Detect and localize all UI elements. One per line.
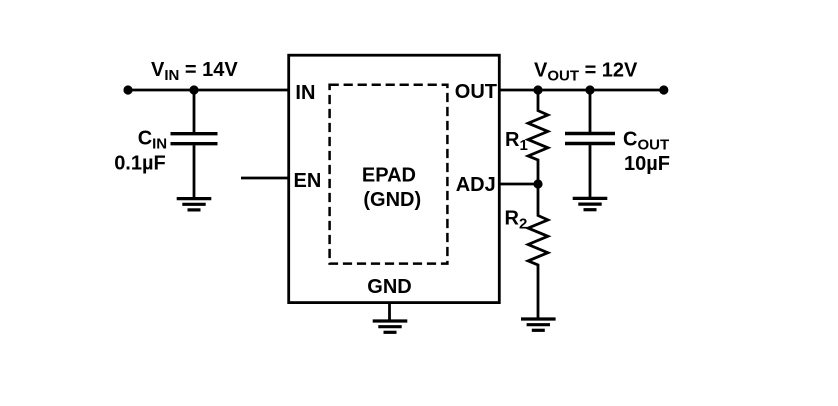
node output terminal [659,85,668,94]
wire CIN bottom lead [193,145,196,197]
svg-text:OUT: OUT [455,81,497,103]
op-amp U1 regulator box [289,55,500,302]
wire COUT top lead [589,90,592,132]
resistor R2 [528,184,548,318]
node COUT junction [585,85,594,94]
node R1 top junction [533,85,542,94]
EPAD dashed box [330,85,448,264]
wire ADJ lead [499,183,538,186]
svg-text:ADJ: ADJ [456,174,496,196]
wire EN lead [241,177,290,180]
node input terminal [123,85,132,94]
svg-text:10µF: 10µF [624,153,670,175]
ground COUT [573,198,608,209]
node VIN junction [189,85,198,94]
svg-text:EPAD: EPAD [362,164,416,186]
ground CIN [177,199,212,210]
svg-text:(GND): (GND) [363,189,421,211]
svg-text:VIN = 14V: VIN = 14V [151,59,238,84]
svg-text:GND: GND [367,276,411,298]
wire input rail [128,89,290,92]
wire CIN top lead [193,90,196,132]
wire GND stub [388,303,391,320]
ground U1 [373,321,408,332]
ground R2 [521,319,556,330]
resistor R1 [528,90,548,184]
svg-text:EN: EN [294,170,322,192]
node ADJ junction [533,179,542,188]
capacitor CIN [171,132,218,135]
capacitor COUT [565,132,615,135]
svg-text:IN: IN [295,82,315,104]
wire COUT bottom lead [589,145,592,197]
wire output rail [499,89,664,92]
svg-text:0.1µF: 0.1µF [114,152,166,174]
